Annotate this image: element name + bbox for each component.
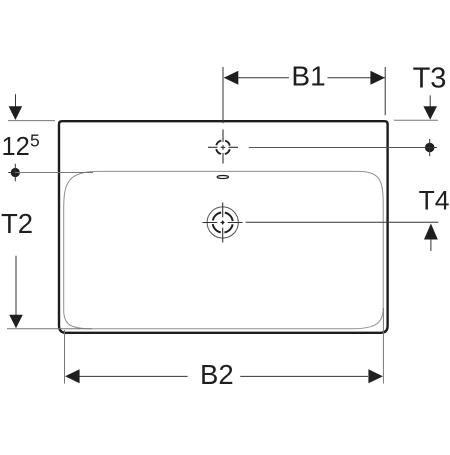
drain bolt circle thick <box>213 212 233 232</box>
datum dot right vertical tick <box>429 139 431 156</box>
12.5 tail line <box>15 94 17 107</box>
drain center diamond <box>221 221 225 225</box>
drain outer circle <box>207 207 238 238</box>
svg-text:T4: T4 <box>419 186 450 216</box>
faucet height line to right datum dot <box>249 147 430 149</box>
B1 extension left (faucet centerline upper) <box>222 67 224 123</box>
extension line B2 right <box>382 308 384 384</box>
B2 arrow left <box>65 369 80 383</box>
12.5 arrow down <box>9 106 23 120</box>
datum dot left horizontal tick <box>8 172 22 174</box>
svg-text:T2: T2 <box>1 208 33 239</box>
B1 extension right <box>384 67 386 115</box>
dimension B1 line left segment <box>225 77 289 79</box>
faucet centerline horizontal <box>208 146 238 148</box>
dimension B2 line right segment <box>240 375 368 377</box>
B2 arrow right <box>368 369 383 383</box>
dimension B1 line right segment <box>328 77 385 79</box>
drain centerline horizontal <box>203 222 243 224</box>
faucet hole circle <box>216 140 230 154</box>
overflow slot <box>217 176 228 179</box>
datum line left to bowl edge <box>15 172 93 174</box>
T3 tail line <box>429 95 431 108</box>
extension line B2 left <box>64 330 66 384</box>
T2 tail line <box>15 256 17 316</box>
dimension B2 line left segment <box>66 375 188 377</box>
svg-text:5: 5 <box>30 131 40 151</box>
extension line top left <box>8 120 55 122</box>
B1 arrow right <box>370 71 385 85</box>
T4 tail line <box>430 239 432 251</box>
washbasin outer rim <box>59 121 388 333</box>
svg-text:12: 12 <box>2 133 30 161</box>
datum dot right horizontal tick <box>425 147 437 149</box>
svg-text:B2: B2 <box>200 359 234 390</box>
extension line bottom left (T2 base) <box>7 328 92 330</box>
extension line top right (T3) <box>394 119 438 121</box>
B1 arrow left <box>224 71 239 85</box>
svg-text:T3: T3 <box>413 63 447 95</box>
washbasin inner bowl <box>64 171 384 328</box>
datum dot left vertical tick <box>14 164 16 182</box>
drain centerline vertical <box>222 203 224 243</box>
T4 dimension line from drain <box>246 221 439 223</box>
svg-text:B1: B1 <box>291 61 325 92</box>
T3 arrow down <box>423 106 437 119</box>
datum dot left <box>11 168 20 177</box>
faucet centerline vertical <box>222 130 224 164</box>
T2 arrow down <box>9 315 23 329</box>
T4 arrow up <box>424 224 438 240</box>
datum dot right <box>425 143 435 153</box>
